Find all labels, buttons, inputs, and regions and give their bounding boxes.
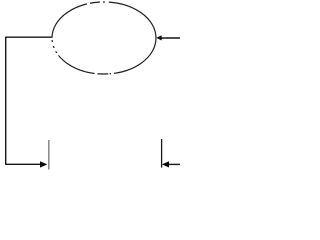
arrowhead right-pointing [40, 161, 47, 167]
wire: left vertical rail [5, 37, 7, 165]
ellipse loop [52, 2, 156, 74]
ellipse scan gaps bottom [95, 70, 115, 78]
ellipse scan gaps top [87, 0, 109, 6]
wire: top-right arrow line from edge [161, 37, 180, 39]
arrowhead left-pointing into stub [162, 161, 169, 167]
stub: bottom-right vertical [161, 139, 163, 168]
arrowhead left-pointing into ellipse [156, 35, 161, 40]
wire: top horizontal from left rail to ellipse [6, 36, 52, 38]
wire: bottom-right arrow line from edge [169, 163, 181, 165]
ellipse scan gaps left vertex [50, 38, 59, 56]
wire: bottom-left horizontal with arrow [5, 163, 40, 165]
gray stub: bottom-left vertical [48, 140, 50, 170]
